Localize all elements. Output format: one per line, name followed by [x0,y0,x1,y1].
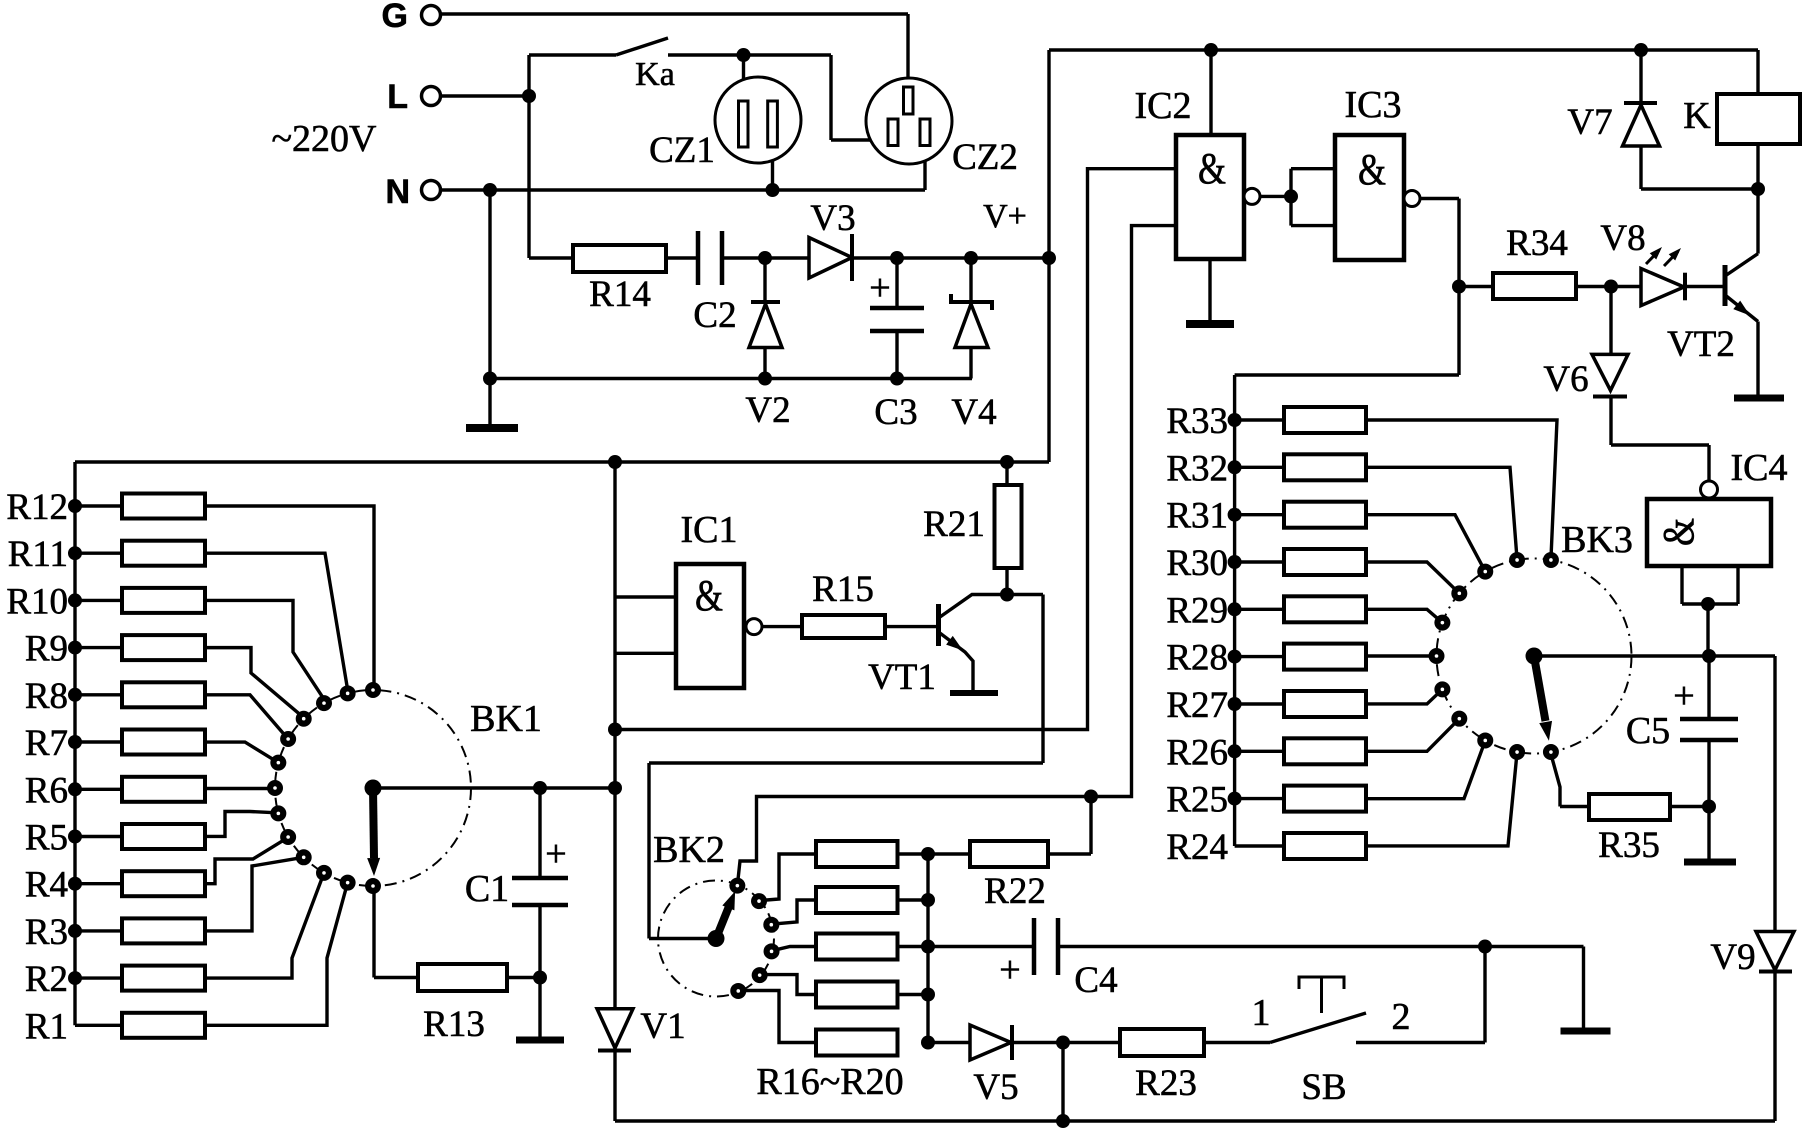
svg-text:V3: V3 [810,198,855,239]
svg-text:R27: R27 [1166,685,1228,726]
svg-text:R32: R32 [1166,448,1228,489]
svg-text:R30: R30 [1166,543,1228,584]
svg-text:R7: R7 [25,723,68,764]
svg-text:IC2: IC2 [1135,85,1192,127]
svg-text:IC4: IC4 [1731,447,1788,489]
svg-text:R31: R31 [1166,496,1228,537]
svg-text:+: + [545,833,566,875]
svg-text:C1: C1 [465,868,509,910]
svg-text:C5: C5 [1626,710,1670,752]
svg-text:BK1: BK1 [470,698,542,740]
svg-text:&: & [1198,144,1226,193]
svg-text:R26: R26 [1166,732,1228,773]
svg-text:SB: SB [1301,1067,1346,1108]
svg-text:+: + [869,267,890,309]
svg-text:BK2: BK2 [653,829,725,871]
svg-text:R8: R8 [25,676,68,717]
svg-text:R23: R23 [1135,1063,1197,1104]
svg-text:V+: V+ [983,198,1027,235]
svg-text:VT2: VT2 [1667,324,1735,365]
svg-text:R29: R29 [1166,590,1228,631]
svg-text:R35: R35 [1598,825,1660,866]
svg-text:R14: R14 [589,274,651,315]
svg-text:V5: V5 [973,1067,1018,1108]
svg-text:R21: R21 [923,504,985,545]
svg-text:R25: R25 [1166,780,1228,821]
svg-text:C4: C4 [1074,960,1117,1001]
svg-text:R10: R10 [6,581,68,622]
svg-text:VT1: VT1 [868,657,936,698]
svg-text:&: & [695,571,723,620]
svg-text:V1: V1 [640,1006,685,1047]
svg-text:V8: V8 [1600,218,1645,259]
svg-text:R5: R5 [25,818,68,859]
svg-text:&: & [1654,518,1703,546]
svg-text:R6: R6 [25,770,68,811]
svg-text:R34: R34 [1506,223,1568,264]
svg-text:+: + [1673,675,1694,717]
svg-text:R28: R28 [1166,638,1228,679]
svg-text:R1: R1 [25,1006,68,1047]
svg-text:C2: C2 [693,295,736,336]
svg-text:1: 1 [1252,992,1271,1034]
svg-text:C3: C3 [874,392,917,433]
svg-text:V4: V4 [951,392,996,433]
svg-text:~220V: ~220V [271,118,377,160]
svg-text:V9: V9 [1710,937,1755,978]
svg-text:R22: R22 [984,871,1046,912]
svg-text:+: + [999,949,1020,991]
svg-text:L: L [387,78,408,116]
svg-text:K: K [1683,95,1711,137]
svg-text:G: G [382,0,408,35]
svg-text:2: 2 [1392,996,1411,1038]
svg-text:R9: R9 [25,629,68,670]
svg-text:R33: R33 [1166,401,1228,442]
svg-text:CZ1: CZ1 [649,130,715,171]
svg-text:IC1: IC1 [681,509,738,551]
svg-text:N: N [385,173,410,211]
svg-text:V2: V2 [745,390,790,431]
svg-text:&: & [1358,145,1386,194]
svg-text:R3: R3 [25,912,68,953]
svg-text:BK3: BK3 [1561,519,1633,561]
svg-text:R2: R2 [25,959,68,1000]
svg-text:R4: R4 [25,865,68,906]
svg-text:R12: R12 [6,487,68,528]
svg-text:R15: R15 [812,569,874,610]
svg-text:R11: R11 [8,534,68,575]
svg-text:V7: V7 [1567,102,1612,143]
svg-text:R13: R13 [423,1004,485,1045]
svg-text:V6: V6 [1543,359,1588,400]
svg-text:IC3: IC3 [1345,84,1402,126]
svg-text:Ka: Ka [635,56,675,93]
svg-text:R16~R20: R16~R20 [756,1061,903,1103]
svg-text:R24: R24 [1166,827,1228,868]
svg-text:CZ2: CZ2 [952,137,1018,178]
